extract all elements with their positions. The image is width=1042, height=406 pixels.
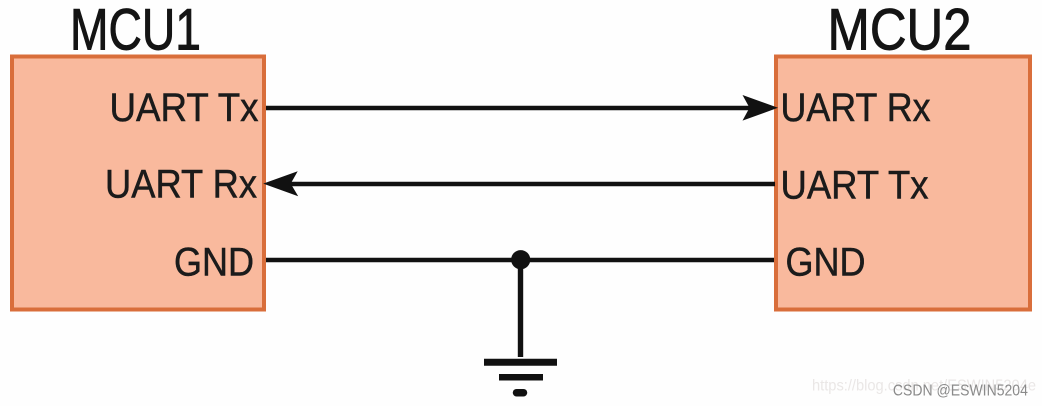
svg-text:GND: GND [174, 241, 254, 285]
svg-text:GND: GND [786, 241, 866, 285]
svg-text:MCU1: MCU1 [70, 0, 201, 62]
svg-text:CSDN @ESWIN5204: CSDN @ESWIN5204 [893, 382, 1028, 399]
svg-text:MCU2: MCU2 [828, 0, 972, 62]
svg-text:UART Rx: UART Rx [105, 163, 257, 207]
svg-text:UART Tx: UART Tx [781, 164, 929, 208]
svg-text:UART Tx: UART Tx [110, 86, 259, 130]
svg-text:UART Rx: UART Rx [781, 86, 931, 130]
